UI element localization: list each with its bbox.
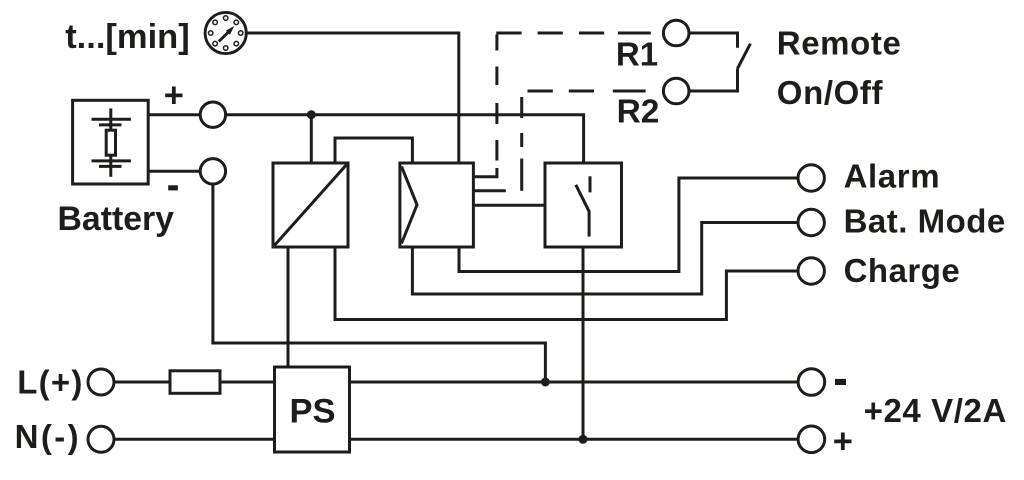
minus sign output [835,379,846,385]
block U2 charger [400,163,474,247]
wire U2 bottom to Bat. Mode terminal [412,223,797,295]
wire R2 elbow from U2 right edge [473,189,505,192]
svg-text:N(-): N(-) [15,418,81,455]
wire PS to plus output terminal [350,438,799,441]
wire N(-) to PS [114,438,275,441]
wire U3 bottom to plus bus [582,247,585,439]
svg-text:PS: PS [290,392,336,430]
remote on/off switch [689,33,750,91]
svg-text:+: + [833,422,853,460]
wire U2 bottom to Alarm terminal [459,178,798,272]
svg-text:Alarm: Alarm [844,158,941,195]
power supply block PS [275,367,350,452]
wire battery + to block U3 top [226,115,584,163]
svg-text:Remote: Remote [777,24,902,61]
battery cell symbol with fuse [92,108,131,176]
wire R1 elbow to U2 right edge [473,168,497,177]
terminal circle R1 [663,20,689,46]
switch contact inside U3 [576,176,590,236]
svg-text:R2: R2 [617,93,660,130]
dashed wire R2 horizontal [528,90,646,93]
wire battery - down right down to minus bus [213,184,546,382]
node junction dot plus bus [579,435,588,444]
block U3 switch unit [545,163,622,247]
wire bridge block U1 to block U2 [335,138,412,163]
battery + terminal circle [200,102,225,127]
terminal circle plus output [798,426,825,453]
dashed wire R1 horizontal [496,32,651,35]
wire battery box to + terminal [148,113,200,116]
terminal circle minus output [798,369,825,396]
wire battery box to - terminal [148,170,200,173]
terminal circle L(+) [88,369,114,395]
svg-text:L(+): L(+) [17,363,83,400]
svg-text:+24 V/2A: +24 V/2A [864,392,1007,429]
chevron of U2 [402,167,418,244]
wire L(+) to fuse [114,381,170,384]
terminal circle Charge [798,258,824,284]
svg-text:On/Off: On/Off [777,74,884,111]
terminal circle N(-) [88,426,114,452]
dashed wire R1 vertical [495,35,498,161]
terminal circle R2 [663,78,689,104]
wire U1 bottom to PS top [287,247,290,367]
battery box [73,100,149,184]
fuse F1 [170,371,220,394]
wire U1 bottom to Charge terminal [335,247,798,320]
svg-text:+: + [164,77,184,115]
svg-text:Battery: Battery [58,200,175,238]
wire fuse to PS [220,381,275,384]
minus sign battery [168,185,178,190]
block U1 DC/DC converter [273,163,348,247]
potentiometer timer dial [205,12,246,53]
battery - terminal circle [200,159,225,184]
svg-text:R1: R1 [616,36,658,73]
wire block U2 to block U3 [473,204,545,207]
diagonal of U1 [273,163,348,247]
wire PS to minus output terminal [350,381,799,384]
dashed wire R2 vertical [520,97,523,191]
wire from dial down to block U2 top [246,33,459,163]
svg-text:Bat. Mode: Bat. Mode [844,203,1006,240]
node junction dot on + wire [307,110,316,119]
svg-text:t...[min]: t...[min] [65,18,190,56]
node junction dot minus bus [541,378,550,387]
terminal circle Alarm [798,165,824,191]
svg-text:Charge: Charge [844,252,961,289]
wire junction down to block U1 top [310,115,313,163]
terminal circle Bat. Mode [798,209,824,235]
